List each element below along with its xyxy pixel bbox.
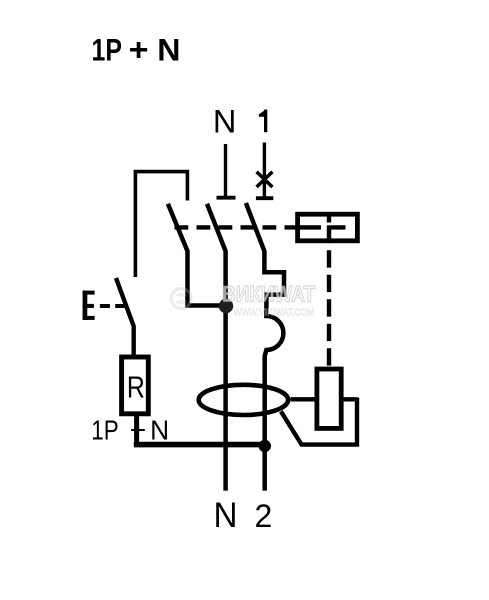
svg-text:N: N bbox=[150, 414, 169, 446]
svg-text:N: N bbox=[213, 103, 236, 139]
E switch blade + wire to R bbox=[116, 278, 134, 358]
svg-text:WWW.VIKIWAT.COM: WWW.VIKIWAT.COM bbox=[234, 307, 315, 318]
terminal label 1 (top) bbox=[259, 110, 267, 133]
wire: top-left L feed to test pole bbox=[135, 172, 187, 277]
label 1P + N (bottom) bbox=[91, 414, 169, 446]
svg-text:ВИКИWAT: ВИКИWAT bbox=[222, 282, 315, 307]
bus junction node B bbox=[259, 440, 271, 452]
bus wire (thick bottom horizontal) bbox=[134, 442, 265, 448]
watermark logo ring bbox=[171, 289, 191, 309]
wire: line 1 supply lead bbox=[263, 143, 266, 199]
switch blade pole 1 (test) + wire down to node A bbox=[168, 204, 226, 306]
terminal bar 1 bbox=[256, 196, 273, 200]
svg-text:R: R bbox=[127, 370, 145, 404]
E dashed link bbox=[100, 304, 127, 308]
wire: N supply lead bbox=[224, 144, 227, 198]
junction node A bbox=[219, 299, 233, 313]
E label (drawn) bbox=[83, 291, 95, 320]
terminal bar N bbox=[217, 196, 236, 200]
mechanism dashed linkage (horizontal) bbox=[175, 225, 296, 229]
svg-text:1P: 1P bbox=[91, 415, 118, 446]
test resistor R box bbox=[122, 357, 149, 414]
title 1P + N bbox=[92, 32, 181, 69]
wire: toroid secondary to trip coil bbox=[291, 397, 358, 401]
wire: R to bus bbox=[134, 414, 139, 443]
svg-text:+: + bbox=[130, 415, 146, 446]
svg-text:+: + bbox=[129, 32, 149, 67]
test button box bbox=[298, 214, 358, 241]
X mark on line 1 bbox=[257, 172, 273, 187]
trip coil box bbox=[317, 369, 341, 428]
dashed linkage (vertical, to trip coil) bbox=[327, 216, 331, 223]
svg-text:N: N bbox=[157, 32, 180, 68]
switch blade N pole + N wire down bbox=[207, 204, 226, 491]
svg-text:2: 2 bbox=[255, 498, 273, 534]
wire: trip coil return bracket bbox=[281, 398, 357, 445]
toroid current sensor bbox=[199, 385, 288, 415]
svg-text:1P: 1P bbox=[92, 33, 122, 69]
svg-text:N: N bbox=[214, 496, 238, 535]
switch blade line pole + thermal jog + magnetic coil bump + wire down bbox=[246, 203, 284, 491]
